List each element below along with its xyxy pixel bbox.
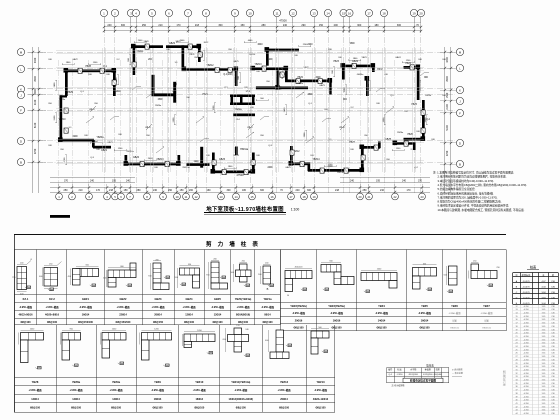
svg-text:YBZ9a: YBZ9a [96,137,104,139]
svg-text:26: 26 [515,353,517,355]
section KZ-1 [17,267,27,290]
svg-text:47500: 47500 [236,173,244,177]
svg-text:Φ8@100: Φ8@100 [152,407,163,410]
svg-text:1:100: 1:100 [291,208,300,212]
svg-text:Φ8@100: Φ8@100 [238,321,249,324]
svg-text:KZ-2: KZ-2 [49,297,55,301]
svg-text:290: 290 [301,24,306,27]
svg-text:YBZ9: YBZ9 [67,92,73,94]
svg-text:剪力墙柱表: 剪力墙柱表 [206,240,264,248]
svg-text:-4.350: -4.350 [523,390,528,392]
svg-text:3.65: 3.65 [542,393,546,395]
right long list [512,305,514,416]
wall W40 [212,171,254,174]
section YBZ10 [184,334,215,342]
svg-text:4040: 4040 [257,44,263,46]
svg-text:30: 30 [515,366,517,368]
svg-text:15: 15 [342,11,346,15]
svg-text:-4.350: -4.350 [523,313,528,315]
grid bubble B15 [249,193,256,200]
wall W46 [308,169,363,172]
svg-text:GBZ4: GBZ4 [395,57,401,59]
svg-text:218: 218 [195,24,200,27]
svg-text:218: 218 [109,189,114,192]
bottom inner dimension chain right [340,177,430,179]
svg-text:YBZ8: YBZ8 [32,380,39,384]
plan column outline rects [78,68,82,73]
svg-text:Φ8@100: Φ8@100 [419,327,430,330]
svg-text:210: 210 [79,189,84,192]
svg-text:YBZ11: YBZ11 [137,51,145,53]
svg-text:40: 40 [515,400,517,402]
wall W56 [173,82,176,103]
table outer border [14,234,506,236]
grid bubble J [17,91,24,98]
grid bubble 14 [324,9,331,16]
svg-text:-2.950~楼面: -2.950~楼面 [237,305,251,309]
svg-text:C30: C30 [551,363,554,365]
svg-text:-4.350: -4.350 [523,400,528,402]
svg-text:YBZ10: YBZ10 [195,380,204,384]
svg-text:24: 24 [515,346,517,348]
svg-text:-2.950~楼面: -2.950~楼面 [110,388,124,392]
grid bubble 3 [127,9,134,16]
svg-text:YBZ1(YBZ1a): YBZ1(YBZ1a) [235,297,252,301]
svg-text:17: 17 [515,323,517,325]
svg-text:YBZ2a: YBZ2a [234,109,242,111]
svg-text:18Φ14: 18Φ14 [195,398,203,401]
svg-text:Φ6@400: Φ6@400 [434,373,443,376]
svg-text:YBZ2: YBZ2 [303,67,309,69]
svg-text:-10.470: -10.470 [522,286,530,288]
svg-text:16Φ16: 16Φ16 [333,319,341,322]
grid bubble R1 [456,48,463,55]
svg-text:180: 180 [374,24,379,27]
svg-text:GBZ4: GBZ4 [352,61,359,63]
wall W9 [133,45,136,75]
svg-text:C30: C30 [551,313,554,315]
svg-text:YBZ8a: YBZ8a [72,380,81,384]
wall W31 [230,103,255,106]
svg-text:34: 34 [515,380,517,382]
grid bubble B19 [311,193,318,200]
grid bubble B22 [392,193,399,200]
svg-text:3.65: 3.65 [542,336,546,338]
svg-text:200: 200 [334,24,339,27]
grid bubble 9 [231,9,238,16]
svg-text:C30: C30 [551,386,554,388]
svg-text:18Φ14: 18Φ14 [154,398,162,401]
section YBZ11 [234,328,242,352]
svg-text:14Φ14: 14Φ14 [112,398,120,401]
grid bubble R4 [456,97,463,104]
svg-text:Φ8@100: Φ8@100 [331,327,342,330]
svg-text:F: F [459,111,461,115]
grid bubble B16 [269,193,276,200]
wall W54 [152,75,155,96]
svg-text:3.65: 3.65 [542,363,546,365]
svg-text:-2.950~楼面: -2.950~楼面 [46,305,60,309]
svg-text:-2.950~楼面: -2.950~楼面 [70,388,84,392]
svg-text:Φ8@100: Φ8@100 [30,407,41,410]
svg-text:280: 280 [261,24,266,27]
svg-text:C30: C30 [551,410,554,412]
svg-text:C30: C30 [551,369,554,371]
svg-text:-2.950~楼面: -2.950~楼面 [261,305,275,309]
svg-text:C30: C30 [551,316,554,318]
svg-text:3.65: 3.65 [542,356,546,358]
svg-text:15: 15 [515,316,517,318]
svg-text:14Φ14: 14Φ14 [378,319,386,322]
svg-text:3.65: 3.65 [542,410,546,412]
svg-text:10: 10 [175,195,179,199]
table section A grid [14,250,16,326]
section YBZ5 [413,268,437,277]
grid bubble B4 [104,193,111,200]
svg-text:-2.950~楼面: -2.950~楼面 [330,311,344,315]
wall W42 [235,147,238,156]
svg-text:YBZ7: YBZ7 [349,142,355,144]
svg-text:Φ8@100: Φ8@100 [71,407,82,410]
svg-text:3.65: 3.65 [542,413,546,415]
svg-text:-2.950~楼面: -2.950~楼面 [183,305,197,309]
svg-text:37: 37 [515,390,517,392]
svg-text:3.65: 3.65 [542,403,546,405]
svg-text:3400: 3400 [34,57,37,63]
svg-text:13: 13 [515,309,517,311]
svg-text:3.65: 3.65 [542,313,546,315]
svg-text:240: 240 [283,24,288,27]
wall W37 [125,163,180,166]
grid bubble 5 [148,9,155,16]
wall W27 [422,100,425,140]
svg-text:32: 32 [515,373,517,375]
grid bubble M [17,48,24,55]
grid bubble L [17,65,24,72]
svg-text:36: 36 [515,386,517,388]
wall W53 [266,49,299,52]
grid bubble B2 [69,193,76,200]
svg-text:150: 150 [240,24,245,27]
svg-text:C30: C30 [551,359,554,361]
wall W41 [252,153,255,173]
svg-text:C30: C30 [551,380,554,382]
svg-text:-10.470: -10.470 [522,297,530,299]
grid bubble B8 [144,193,151,200]
svg-text:B: B [459,162,461,166]
svg-text:28: 28 [515,359,517,361]
svg-text:4.剪力墙身水平分布筋C8@200(二排), 竖向分布筋C8: 4.剪力墙身水平分布筋C8@200(二排), 竖向分布筋C8@200(-0.03… [438,183,528,187]
svg-text:20Φ14: 20Φ14 [154,314,162,317]
svg-text:YBZ3(YBZ3a): YBZ3(YBZ3a) [328,304,345,308]
svg-text:8Φ14: 8Φ14 [264,314,271,317]
svg-text:桩表: 桩表 [530,264,537,269]
svg-text:3.65: 3.65 [542,396,546,398]
svg-text:F: F [20,108,22,112]
svg-text:-10.970: -10.970 [522,281,530,283]
svg-text:C30: C30 [551,366,554,368]
svg-text:1200: 1200 [267,59,273,61]
svg-text:195: 195 [112,180,117,183]
svg-text:20Φ16: 20Φ16 [295,319,303,322]
svg-text:GBZ3: GBZ3 [155,297,162,301]
svg-text:GBZ2: GBZ2 [120,297,127,301]
svg-text:13: 13 [219,195,223,199]
svg-text:-4.350: -4.350 [523,396,528,398]
svg-text:-2.950~楼面: -2.950~楼面 [418,311,432,315]
svg-text:23: 23 [420,195,424,199]
vertical grid lines [104,17,106,193]
svg-text:3.65: 3.65 [542,406,546,408]
svg-text:27: 27 [515,356,517,358]
svg-text:-4.350: -4.350 [523,410,528,412]
svg-text:Φ12@200: Φ12@200 [409,373,419,376]
svg-text:C30: C30 [551,383,554,385]
svg-text:-4.350: -4.350 [523,376,528,378]
section YBZ6 [449,266,458,285]
svg-text:-2.950~楼面: -2.950~楼面 [117,305,131,309]
svg-text:11: 11 [185,195,188,199]
grid bubble B14 [233,193,240,200]
svg-text:YBZ8: YBZ8 [85,66,91,68]
svg-text:240: 240 [90,180,95,183]
plan micro-dimension marks [62,64,74,66]
grid bubble 10 [246,9,253,16]
svg-text:210: 210 [158,24,163,27]
svg-text:Φ8@100: Φ8@100 [20,321,31,324]
svg-text:9.未经技术鉴定或设计许可, 不得改变结构的用途和使用环境.: 9.未经技术鉴定或设计许可, 不得改变结构的用途和使用环境. [438,204,510,208]
svg-text:210: 210 [380,189,385,192]
svg-text:YBZ5: YBZ5 [411,104,417,106]
svg-text:C30: C30 [551,323,554,325]
svg-text:Φ8@100: Φ8@100 [376,327,387,330]
svg-text:2900: 2900 [446,76,449,82]
wall W47 [361,146,364,171]
svg-text:29: 29 [515,363,517,365]
wall W39 [212,153,215,173]
svg-text:14Φ14(18Φ16+4Φ16): 14Φ14(18Φ16+4Φ16) [228,398,253,401]
svg-text:-2.950: -2.950 [397,374,404,376]
svg-text:YBZ10: YBZ10 [249,54,256,56]
section GBZ2 [108,270,136,278]
svg-text:12: 12 [515,306,517,308]
svg-text:-2.950~楼面: -2.950~楼面 [151,388,165,392]
grid bubble B3 [86,193,93,200]
svg-text:2200: 2200 [72,136,78,138]
svg-text:3.65: 3.65 [542,306,546,308]
svg-text:-4.350: -4.350 [523,406,528,408]
svg-text:170: 170 [96,189,101,192]
svg-text:16: 16 [270,195,274,199]
svg-text:C30: C30 [551,376,554,378]
svg-text:C30: C30 [551,406,554,408]
svg-text:14: 14 [234,195,238,199]
wall W51 [413,142,416,150]
svg-text:6.墙柱纵筋连接采用机械连接接头, 接头等级I级.: 6.墙柱纵筋连接采用机械连接接头, 接头等级I级. [438,191,495,195]
wall W28 [404,138,425,141]
svg-text:22: 22 [515,339,517,341]
svg-text:240: 240 [350,180,355,183]
svg-text:2.未注明分布筋间距均为双向双排钢筋网片, 拉筋梅花布置.: 2.未注明分布筋间距均为双向双排钢筋网片, 拉筋梅花布置. [438,175,507,179]
svg-text:2400: 2400 [267,167,273,169]
svg-text:47500: 47500 [279,19,287,23]
svg-text:-2.950~楼面: -2.950~楼面 [211,305,225,309]
svg-text:C30: C30 [551,339,554,341]
wall W13 [182,45,185,69]
svg-text:41: 41 [515,403,517,405]
svg-text:C30: C30 [551,353,554,355]
bottom outer dimension chain [50,187,430,189]
svg-text:35: 35 [515,383,517,385]
svg-text:5100: 5100 [34,122,37,128]
grid bubble 7 [184,9,191,16]
svg-text:-4.350: -4.350 [523,380,528,382]
svg-text:C30: C30 [551,329,554,331]
svg-text:C30: C30 [551,403,554,405]
svg-text:YBZ4: YBZ4 [378,304,385,308]
wall W1 [65,70,115,73]
svg-text:YBZ5: YBZ5 [421,304,428,308]
svg-text:240: 240 [296,189,301,192]
svg-text:-4.350: -4.350 [523,319,528,321]
wall W24 [372,65,375,72]
svg-text:250: 250 [142,24,147,27]
svg-text:16Φ14: 16Φ14 [421,319,429,322]
svg-text:Φ8@100: Φ8@100 [184,321,195,324]
svg-text:3.65: 3.65 [542,400,546,402]
wall W16 [235,68,238,86]
svg-text:KZ-1: KZ-1 [190,54,196,56]
svg-text:370: 370 [64,180,69,183]
svg-text:-4.350: -4.350 [523,343,528,345]
grid bubble 15 [340,9,347,16]
svg-text:10.本图应与建筑图, 水暖电图配合施工, 预留孔洞详见有关: 10.本图应与建筑图, 水暖电图配合施工, 预留孔洞详见有关图纸, 不得后凿. [438,208,525,212]
svg-text:YBZ3a: YBZ3a [59,99,66,101]
svg-text:C30: C30 [551,343,554,345]
grid bubble B20 [357,193,364,200]
svg-text:Φ8@150/100: Φ8@150/100 [78,321,94,324]
svg-text:-2.950~楼面: -2.950~楼面 [19,305,33,309]
grid bubble 11 [273,9,280,16]
svg-text:280: 280 [137,189,142,192]
wall W11 [166,45,200,48]
svg-text:YBZ7a: YBZ7a [337,172,344,174]
svg-text:-2.950~楼面: -2.950~楼面 [234,388,248,392]
wall W36 [125,155,128,165]
svg-text:C30: C30 [551,393,554,395]
wall W35 [233,114,255,117]
svg-text:19: 19 [312,195,316,199]
svg-text:-4.350: -4.350 [523,359,528,361]
svg-text:3.65: 3.65 [542,309,546,311]
section YBZ9 [142,333,172,341]
grid bubble F [17,106,24,113]
wall W7 [92,140,95,148]
svg-text:20: 20 [515,333,517,335]
svg-text:C30: C30 [551,319,554,321]
svg-text:33: 33 [515,376,517,378]
svg-text:200: 200 [189,189,194,192]
svg-text:300: 300 [357,24,362,27]
svg-text:4Φ22+12Φ12: 4Φ22+12Φ12 [313,398,329,401]
wall W33 [252,95,255,105]
svg-text:-4.350: -4.350 [523,373,528,375]
svg-text:31: 31 [515,369,517,371]
svg-text:12: 12 [291,11,295,15]
svg-text:Φ8@100: Φ8@100 [315,407,326,410]
wall W3 [113,70,116,97]
svg-text:3.65: 3.65 [542,339,546,341]
svg-text:18: 18 [302,195,306,199]
svg-text:3.65: 3.65 [542,390,546,392]
grid bubble B1 [56,193,63,200]
section YBZ1a [263,266,271,284]
table section A2 grid [14,325,16,412]
svg-text:-10.970: -10.970 [522,292,530,294]
svg-text:400x200: 400x200 [295,266,304,268]
svg-text:YBZ13: YBZ13 [156,159,164,161]
svg-text:-2.950~楼面: -2.950~楼面 [193,388,207,392]
wall W21 [329,80,332,95]
svg-text:-4.350: -4.350 [523,339,528,341]
svg-text:-2.950~楼面: -2.950~楼面 [152,305,166,309]
svg-text:YBZ12: YBZ12 [280,380,289,384]
svg-text:240: 240 [245,329,248,331]
svg-text:20: 20 [419,11,423,15]
svg-text:14Φ14: 14Φ14 [31,398,39,401]
svg-text:5.约束边缘构件箍筋沿全高加密.: 5.约束边缘构件箍筋沿全高加密. [438,187,476,191]
table section B grid [280,250,282,332]
svg-text:Φ8@100: Φ8@100 [236,407,247,410]
svg-text:YBZ13: YBZ13 [316,380,325,384]
svg-text:C30: C30 [551,413,554,415]
wall W34 [240,95,243,105]
grid bubble 18 [380,9,387,16]
svg-text:290: 290 [168,189,173,192]
wall W52 [266,49,269,66]
svg-text:21: 21 [367,195,371,199]
svg-text:3.65: 3.65 [542,346,546,348]
grid bubble B18 [301,193,308,200]
svg-text:-4.350: -4.350 [523,323,528,325]
svg-text:2700: 2700 [446,150,449,156]
section YBZ9a [102,333,126,341]
wall W15 [252,67,287,70]
svg-text:300: 300 [307,189,312,192]
svg-text:12Φ14: 12Φ14 [185,314,193,317]
svg-text:-2.950~楼面: -2.950~楼面 [278,388,292,392]
svg-text:-4.350: -4.350 [523,346,528,348]
svg-text:1500: 1500 [34,89,37,95]
svg-text:44: 44 [515,413,517,415]
svg-text:-4.350: -4.350 [523,413,528,415]
svg-text:300: 300 [227,189,232,192]
svg-text:-4.350: -4.350 [523,363,528,365]
section YBZ8a [62,333,81,341]
svg-text:16Φ14: 16Φ14 [82,314,90,317]
grid bubble K [17,85,24,92]
svg-text:170: 170 [236,325,239,327]
svg-text:YBZ7: YBZ7 [483,304,490,308]
svg-text:3.本层砼强度等级墙柱均为C40(-0.030~11.970: 3.本层砼强度等级墙柱均为C40(-0.030~11.970). [438,179,495,183]
svg-text:YBZ3: YBZ3 [361,57,367,59]
grid bubble B6 [118,193,125,200]
svg-text:240: 240 [153,189,158,192]
svg-text:8Φ14(8Φ16): 8Φ14(8Φ16) [236,314,250,317]
top dimension chain [104,26,421,28]
wall W26 [417,66,420,100]
grid bubble B23 [419,193,426,200]
